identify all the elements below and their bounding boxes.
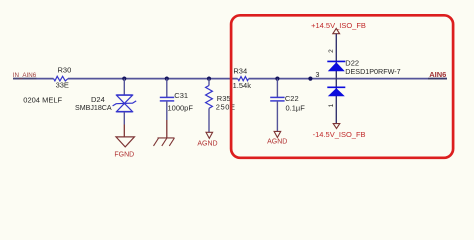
wire C31 to chassis ground <box>166 101 168 120</box>
svg-text:C31: C31 <box>174 91 188 100</box>
wire net-name underline IN_AIN6 <box>13 78 37 80</box>
capacitor C31 <box>160 97 174 101</box>
ground FGND <box>116 137 134 147</box>
svg-text:0.1µF: 0.1µF <box>286 103 306 112</box>
node AIN6 label <box>428 78 447 80</box>
node junction at R35 <box>207 77 211 81</box>
wire stub to R35 <box>208 79 210 86</box>
svg-text:0204 MELF: 0204 MELF <box>23 95 62 104</box>
resistor R34 <box>238 77 249 81</box>
svg-text:SMBJ18CA: SMBJ18CA <box>75 104 112 112</box>
svg-text:AGND: AGND <box>197 141 217 148</box>
svg-text:AIN6: AIN6 <box>429 70 446 79</box>
power -14.5V_ISO_FB <box>333 124 340 129</box>
node junction at C22 <box>275 77 279 81</box>
wire +14.5V to D22 <box>335 34 337 62</box>
ground AGND under R35 <box>206 132 213 138</box>
ground AGND under C22 <box>274 131 281 137</box>
svg-text:2: 2 <box>328 49 335 53</box>
wire stub to C31 <box>166 79 168 97</box>
svg-text:DESD1P0RFW-7: DESD1P0RFW-7 <box>345 67 400 76</box>
node junction at C31 <box>165 77 169 81</box>
wire stub to D24 <box>123 79 125 95</box>
svg-text:250E: 250E <box>216 103 236 112</box>
ground chassis below C31 <box>154 138 175 146</box>
capacitor C22 <box>270 97 284 101</box>
svg-text:R35: R35 <box>217 94 231 103</box>
svg-text:R30: R30 <box>58 65 72 74</box>
svg-text:1: 1 <box>328 103 335 107</box>
svg-text:1.54k: 1.54k <box>233 81 252 90</box>
svg-text:AGND: AGND <box>267 138 287 145</box>
svg-text:-14.5V_ISO_FB: -14.5V_ISO_FB <box>313 130 366 139</box>
node junction at D24 <box>122 77 126 81</box>
svg-text:C22: C22 <box>285 94 299 103</box>
svg-text:1000pF: 1000pF <box>168 103 194 112</box>
wire stub to C22 <box>276 79 278 97</box>
svg-text:FGND: FGND <box>114 151 134 158</box>
wire D24 to FGND <box>123 112 125 125</box>
resistor R35 <box>206 86 213 109</box>
highlight red rounded rectangle <box>231 15 453 158</box>
wire C22 to AGND <box>276 101 278 131</box>
wire R35 to AGND <box>208 108 210 132</box>
svg-text:R34: R34 <box>233 67 247 76</box>
svg-text:D24: D24 <box>91 95 105 104</box>
svg-text:3: 3 <box>316 72 320 79</box>
node junction pin 3 of D22 <box>308 77 312 81</box>
wire main horizontal net IN_AIN6 to AIN6 <box>13 78 447 80</box>
resistor R30 <box>54 76 69 81</box>
svg-text:33E: 33E <box>56 80 69 89</box>
diode D24 SMBJ18CA bidirectional TVS <box>113 95 137 112</box>
diode D22 DESD1P0RFW-7 dual steering <box>335 61 337 123</box>
svg-text:IN_AIN6: IN_AIN6 <box>13 72 37 79</box>
svg-text:+14.5V_ISO_FB: +14.5V_ISO_FB <box>311 21 366 30</box>
